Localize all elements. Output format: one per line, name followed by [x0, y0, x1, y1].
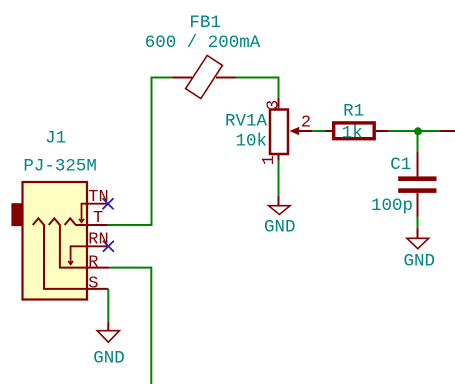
ferrite bead FB1: [172, 55, 236, 98]
wire RV1A pin 1 to GND: [278, 161, 280, 196]
label R1: [343, 102, 364, 122]
RV1A pin number 1: [260, 155, 279, 165]
pin stub entering from right edge: [440, 130, 455, 132]
svg-text:R1: R1: [343, 102, 364, 122]
svg-text:GND: GND: [93, 349, 125, 369]
J1 ring contact and pin R: [49, 218, 109, 272]
svg-text:10k: 10k: [235, 132, 267, 152]
svg-text:RV1A: RV1A: [225, 112, 268, 132]
wire down to RV1A pin 3: [278, 77, 280, 98]
value PJ-325M: [23, 156, 97, 176]
ground under C1: [404, 228, 436, 272]
svg-text:GND: GND: [404, 252, 436, 272]
wire R pin to bottom edge: [109, 268, 151, 384]
label C1: [390, 155, 411, 175]
svg-text:2: 2: [301, 113, 311, 132]
wire left vertical up: [151, 78, 153, 227]
label J1: [45, 129, 66, 149]
value 100p: [371, 196, 413, 216]
wire R1 to junction to right: [389, 130, 440, 132]
potentiometer RV1A: [270, 98, 312, 161]
ground under J1 sleeve: [93, 322, 125, 369]
wire top horizontal right of FB1: [236, 77, 279, 79]
wire T pin to left vertical: [108, 224, 152, 226]
svg-text:S: S: [88, 274, 98, 293]
wire C1 to GND: [417, 217, 419, 228]
J1 tip contact and pin T: [65, 209, 108, 228]
value 600 / 200mA: [145, 33, 261, 53]
wire junction down to C1: [417, 131, 419, 152]
svg-text:1k: 1k: [342, 124, 363, 144]
resistor R1: [325, 123, 389, 139]
J1 switch pin RN: [68, 231, 109, 265]
value 1k: [342, 124, 363, 144]
connector J1 body: [11, 182, 87, 300]
svg-text:R: R: [88, 254, 98, 273]
svg-text:100p: 100p: [371, 196, 413, 216]
value 10k: [235, 132, 267, 152]
svg-text:T: T: [93, 209, 103, 228]
svg-text:600 / 200mA: 600 / 200mA: [145, 33, 261, 53]
junction node: [414, 127, 422, 135]
RV1A pin number 2: [301, 113, 311, 132]
svg-text:J1: J1: [45, 129, 66, 149]
J1 sleeve contact and pin S: [33, 218, 109, 293]
capacitor C1: [398, 152, 436, 217]
wire RV1A wiper to R1: [312, 130, 324, 132]
svg-text:1: 1: [260, 155, 279, 165]
ground under RV1A: [264, 196, 296, 238]
svg-text:RN: RN: [88, 231, 108, 250]
svg-text:PJ-325M: PJ-325M: [23, 156, 97, 176]
label RV1A: [225, 112, 268, 132]
wire top horizontal left of FB1: [151, 77, 173, 79]
svg-text:GND: GND: [264, 218, 296, 238]
svg-text:TN: TN: [88, 188, 108, 207]
svg-text:C1: C1: [390, 155, 411, 175]
no-connect X on RN: [103, 241, 114, 252]
svg-text:FB1: FB1: [189, 13, 221, 33]
wire S pin down to GND: [107, 289, 109, 322]
label FB1: [189, 13, 221, 33]
no-connect X on TN: [103, 198, 114, 209]
RV1A pin number 3: [264, 100, 283, 110]
svg-text:3: 3: [264, 100, 283, 110]
J1 switch pin TN: [79, 188, 109, 222]
